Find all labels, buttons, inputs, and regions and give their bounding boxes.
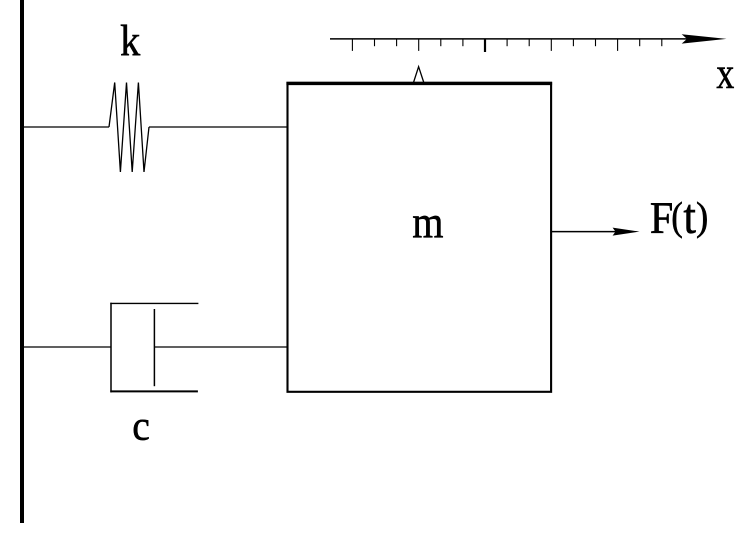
label c: [134, 420, 149, 440]
position marker triangle: [414, 67, 424, 83]
force arrow line: [552, 231, 618, 233]
ruler arrowhead: [682, 34, 727, 43]
mass top edge (thick): [286, 82, 552, 85]
mass m body: [288, 83, 552, 392]
wall: [20, 0, 24, 523]
spring k: [109, 83, 149, 172]
label x: [717, 68, 734, 88]
wire: spring to mass: [149, 126, 287, 128]
damper cylinder bottom: [110, 390, 198, 392]
label F(t): [651, 202, 707, 239]
ruler axis line: [330, 38, 690, 40]
damper rod to mass: [154, 346, 287, 348]
damper cylinder left wall: [110, 303, 112, 393]
label m: [413, 216, 443, 237]
damper cylinder top: [110, 302, 198, 304]
wire: wall to spring: [24, 126, 109, 128]
ruler ticks: [352, 39, 661, 52]
label k: [121, 25, 140, 56]
wire: wall to damper: [24, 346, 111, 348]
damper piston: [153, 309, 155, 386]
force arrowhead: [613, 228, 640, 236]
